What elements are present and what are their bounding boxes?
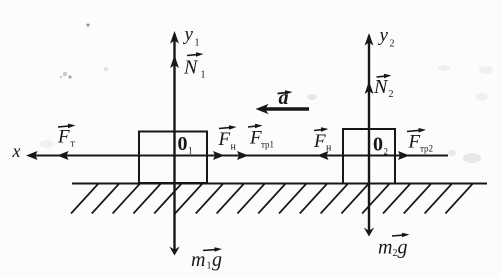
label y1 [183, 24, 200, 49]
wire: y2 axis vertical line x=369 [368, 36, 370, 234]
svg-text:F: F [57, 127, 70, 148]
svg-text:y: y [183, 24, 194, 45]
svg-text:y: y [378, 25, 389, 46]
svg-text:g: g [398, 237, 408, 259]
vector N1 arrowhead (up) [170, 55, 179, 68]
svg-text:g: g [212, 249, 222, 271]
ground hatching [71, 184, 472, 214]
label y2 [378, 25, 395, 50]
svg-text:m: m [191, 249, 205, 271]
svg-text:x: x [12, 141, 21, 161]
svg-text:2: 2 [389, 89, 394, 100]
svg-text:2: 2 [390, 39, 395, 50]
vector N2 arrowhead (up) [365, 81, 374, 94]
vector F_H2 arrowhead (left) [317, 151, 329, 160]
svg-text:1: 1 [201, 70, 206, 81]
svg-text:тр2: тр2 [420, 144, 433, 154]
label x axis [12, 141, 21, 161]
svg-text:N: N [373, 76, 389, 98]
svg-text:F: F [408, 132, 421, 153]
label F_t with over-arrow [57, 124, 76, 150]
svg-text:2: 2 [384, 147, 389, 157]
svg-text:N: N [183, 57, 199, 79]
label m2g with over-arrow [378, 233, 410, 259]
svg-text:m: m [378, 237, 392, 259]
label m1g with over-arrow [191, 247, 222, 271]
wire: y1 axis vertical line x=174.5 [173, 34, 175, 253]
svg-text:a: a [279, 87, 289, 109]
label F_tr2 with over-arrow [407, 128, 433, 154]
ground line [72, 183, 487, 185]
svg-text:0: 0 [373, 134, 383, 156]
wire: main horizontal force/axis line y=155.5 [29, 155, 448, 157]
label F_H1 with over-arrow [218, 125, 237, 152]
label N1 with over-arrow [183, 52, 206, 80]
node: y2 axis top arrowhead [365, 33, 374, 46]
vector F_tr2 arrowhead (right) [398, 151, 410, 160]
node: y1 axis top arrowhead [170, 31, 179, 44]
svg-text:тр1: тр1 [261, 140, 274, 150]
svg-text:н: н [231, 142, 237, 153]
block m2 rectangle [343, 129, 395, 184]
block m1 rectangle [139, 132, 207, 184]
faint scan smudges (decorative) [40, 24, 493, 164]
vector F_tr1 arrowhead (right) [237, 151, 249, 160]
svg-text:н: н [326, 143, 332, 154]
svg-text:0: 0 [178, 133, 188, 155]
svg-text:F: F [218, 129, 231, 150]
svg-text:1: 1 [207, 261, 212, 272]
svg-text:1: 1 [195, 38, 200, 49]
label N2 with over-arrow [373, 74, 394, 100]
vector a (acceleration, thick, points left) [256, 104, 310, 114]
vector F_H1 arrowhead (right) [213, 151, 225, 160]
label F_H2 with over-arrow [313, 127, 332, 153]
svg-text:т: т [71, 139, 76, 150]
vector m1g arrowhead (down) [169, 247, 179, 256]
label O2 origin [373, 134, 388, 157]
vector F_t (traction, points left) arrowhead [57, 151, 69, 160]
node: x-axis left arrowhead [26, 151, 38, 160]
label O1 origin [178, 133, 193, 156]
label F_tr1 with over-arrow [248, 124, 274, 150]
vector m2g arrowhead (down) [364, 228, 374, 237]
svg-text:1: 1 [188, 146, 193, 156]
svg-text:F: F [313, 131, 326, 152]
label a with over-arrow [278, 87, 293, 109]
